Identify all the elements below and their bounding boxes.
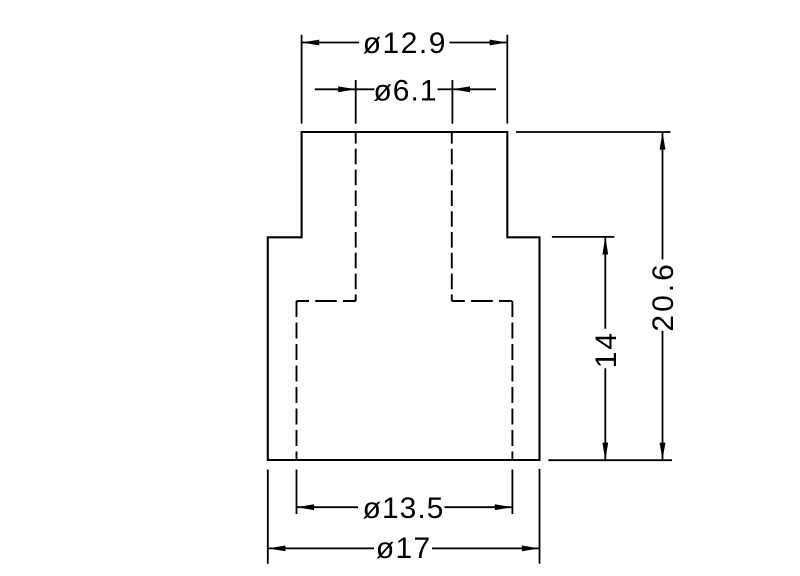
dim d6.1 line right <box>438 88 453 90</box>
dim d12.9 arrow left <box>302 40 320 46</box>
hidden bore right upper <box>451 132 453 301</box>
dim d12.9 line left <box>302 42 359 44</box>
dim d17 line left <box>268 547 374 549</box>
dim 14 arrow top <box>602 237 608 255</box>
dim d13.5 ext right <box>511 470 513 515</box>
svg-text:14: 14 <box>590 331 623 368</box>
dim 20.6 ext bottom <box>548 459 672 461</box>
dim 20.6 arrow bottom <box>660 443 666 461</box>
dim d6.1 ext left <box>355 80 357 124</box>
svg-text:20.6: 20.6 <box>647 261 680 331</box>
dim 20.6 arrow top <box>660 132 666 150</box>
hidden shoulder right <box>452 300 513 302</box>
svg-text:ø17: ø17 <box>376 532 432 565</box>
dim d6.1 tail right <box>452 88 496 90</box>
dim d17 ext left <box>267 470 269 564</box>
dim d17 arrow right <box>522 546 540 552</box>
svg-text:ø13.5: ø13.5 <box>363 492 445 525</box>
dim d17 ext right <box>539 469 541 564</box>
dim d12.9 ext left <box>301 35 303 124</box>
dim 14 line top <box>604 237 606 329</box>
hidden shoulder left <box>297 300 356 302</box>
dim 20.6 line bottom <box>662 331 664 460</box>
svg-text:ø6.1: ø6.1 <box>373 75 437 108</box>
dim 20.6 ext top <box>516 131 671 133</box>
hidden bore right lower <box>511 301 513 460</box>
dim d6.1 arrow right <box>452 86 470 92</box>
dim 14 line bottom <box>604 368 606 460</box>
dim d6.1 ext right <box>451 80 453 124</box>
dim d13.5 ext left <box>296 470 298 515</box>
dim d17 arrow left <box>268 546 286 552</box>
dim d13.5 arrow right <box>495 504 513 510</box>
dim d6.1 line left <box>356 88 375 90</box>
dim d13.5 line right <box>445 506 513 508</box>
dim 14 arrow bottom <box>602 443 608 461</box>
dim d6.1 arrow left <box>338 86 356 92</box>
svg-text:ø12.9: ø12.9 <box>363 27 447 60</box>
dim 20.6 line top <box>662 132 664 260</box>
dim d6.1 tail left <box>315 88 356 90</box>
dim d12.9 ext right <box>506 35 508 124</box>
dim d13.5 line left <box>297 506 359 508</box>
hidden bore left upper <box>355 132 357 301</box>
part outline <box>268 132 540 460</box>
dim 14 ext step <box>552 236 615 238</box>
dim d17 line right <box>432 547 540 549</box>
dim d13.5 arrow left <box>297 504 315 510</box>
dim d12.9 arrow right <box>490 40 508 46</box>
dim d12.9 line right <box>450 42 508 44</box>
hidden bore left lower <box>296 301 298 460</box>
